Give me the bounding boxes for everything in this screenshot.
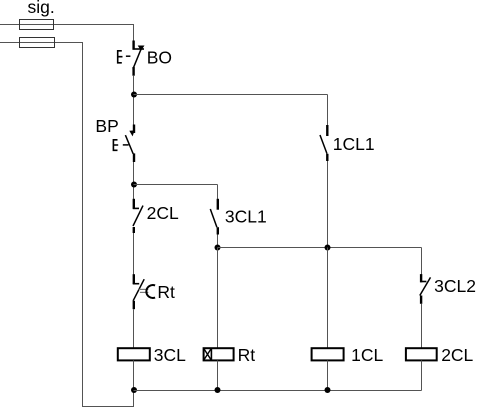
wire: 3CL1 branch vertical (x=217.6)	[217, 185, 219, 200]
contact 1CL1 (NO auxiliary)	[320, 125, 327, 161]
wire: 1CL coil to bottom rail	[327, 360, 329, 390]
contact 2CL (NC auxiliary)	[133, 199, 143, 233]
contact Rt (NC, time-delay opening)	[133, 274, 155, 309]
node: junction below BP	[131, 182, 137, 188]
svg-text:3CL1: 3CL1	[225, 206, 267, 226]
node: bottom rail junction under Rt	[215, 387, 221, 393]
wire: main branch top segment (x=133.6)	[133, 25, 135, 42]
wire: 2CL coil to bottom rail corner	[421, 360, 423, 390]
wire: horizontal to 1CL1 branch (y=94.6)	[134, 94, 328, 96]
wire: 3CL1 to junction	[217, 235, 219, 248]
coil Rt (timer relay, X-box)	[204, 348, 234, 360]
wire: bottom rail (y=390)	[134, 390, 422, 392]
push button BP (NO, start)	[113, 125, 134, 163]
push button BO (NC, stop)	[118, 41, 145, 76]
node: bottom rail left junction	[131, 387, 137, 393]
svg-text:1CL1: 1CL1	[333, 134, 375, 154]
wire: horizontal to 3CL1 branch (y=184.7)	[134, 184, 218, 186]
svg-text:BP: BP	[95, 116, 118, 136]
node: bottom rail junction under 1CL	[325, 387, 331, 393]
node: junction below 3CL1	[215, 245, 221, 251]
wire: horizontal rung y=247.7	[218, 247, 422, 249]
wire: second supply line L2 (y=42.5)	[0, 42, 83, 44]
coil 3CL	[118, 348, 150, 360]
wire: 3CL2 branch vertical top (x=421.1)	[421, 248, 423, 275]
svg-text:3CL2: 3CL2	[434, 276, 476, 296]
wire: junction down to 1CL coil	[327, 248, 329, 349]
svg-text:Rt: Rt	[238, 345, 256, 365]
coil 1CL	[312, 348, 344, 360]
wire: BO to BP segment	[133, 76, 135, 125]
wire: Rt contact to 3CL coil segment	[133, 309, 135, 348]
node: junction below BO	[131, 92, 137, 98]
wire: 2CL to Rt contact segment	[133, 233, 135, 275]
wire: 3CL coil to bottom rail	[133, 360, 135, 390]
svg-text:Rt: Rt	[157, 282, 175, 302]
wire: Rt coil branch vertical	[217, 248, 219, 349]
svg-text:sig.: sig.	[28, 0, 55, 17]
wire: 3CL2 to 2CL coil	[421, 304, 423, 349]
wire: Rt coil to bottom rail	[217, 360, 219, 390]
svg-text:2CL: 2CL	[441, 345, 473, 365]
wire: left return rail (x=83)	[83, 43, 134, 407]
fuse F1	[20, 20, 54, 30]
wire: 1CL1 branch vertical top (x=327.3)	[327, 95, 329, 126]
svg-text:3CL: 3CL	[154, 345, 186, 365]
coil 2CL	[406, 348, 437, 360]
wire: 1CL1 to junction	[327, 161, 329, 248]
svg-text:BO: BO	[147, 47, 172, 67]
fuse F2	[20, 38, 55, 48]
svg-text:1CL: 1CL	[351, 345, 383, 365]
wire: top supply line L1 (y=24)	[0, 24, 134, 26]
contact 3CL2 (NC auxiliary)	[420, 274, 431, 304]
svg-text:2CL: 2CL	[147, 203, 179, 223]
contact 3CL1 (NO auxiliary)	[210, 199, 218, 235]
node: junction on rung y=247.7	[325, 245, 331, 251]
wire: BP to 2CL segment	[133, 162, 135, 200]
